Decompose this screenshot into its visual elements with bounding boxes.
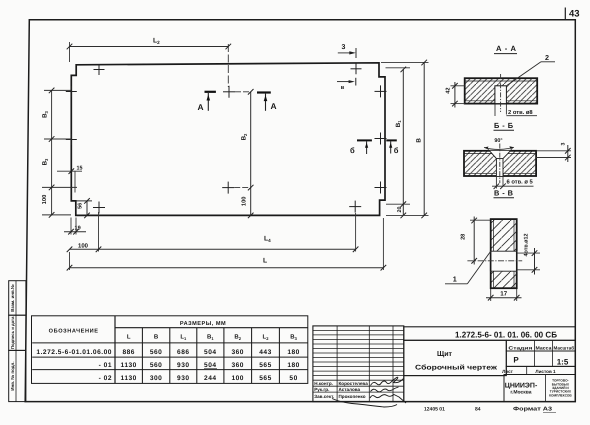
- svg-text:1130: 1130: [121, 362, 137, 369]
- svg-text:1.272.5-6- 01. 01. 06. 00 СБ: 1.272.5-6- 01. 01. 06. 00 СБ: [455, 330, 557, 340]
- svg-text:100: 100: [41, 195, 48, 205]
- svg-text:Листов 1: Листов 1: [535, 369, 556, 374]
- hole cross right edge lower: [375, 182, 387, 194]
- countersunk hole in B-B: [490, 151, 511, 176]
- svg-text:43: 43: [569, 9, 580, 20]
- panel outline: [71, 63, 385, 216]
- svg-text:Щит: Щит: [437, 349, 452, 358]
- hole cross centre upper: [223, 86, 235, 98]
- svg-text:L: L: [127, 334, 131, 341]
- svg-text:1130: 1130: [121, 375, 137, 382]
- section mark A right: [257, 93, 277, 112]
- svg-text:Масса: Масса: [536, 346, 552, 351]
- svg-text:L: L: [263, 258, 267, 265]
- svg-text:г.Москва: г.Москва: [510, 390, 531, 396]
- dim 19 bottom-left: [64, 218, 86, 235]
- svg-text:17: 17: [500, 291, 507, 298]
- svg-text:Стадия: Стадия: [508, 346, 532, 351]
- title block organisation cell: [504, 375, 575, 402]
- svg-text:Взам. инв.№: Взам. инв.№: [10, 284, 15, 312]
- svg-text:686: 686: [177, 349, 190, 356]
- svg-text:4отв.ø12: 4отв.ø12: [524, 234, 530, 257]
- hole cross left edge mid: [66, 134, 77, 145]
- left margin box: Podpis i data: [9, 315, 26, 350]
- footer format A3: [513, 407, 556, 413]
- section V-V rib: [467, 219, 522, 288]
- svg-text:930: 930: [177, 375, 190, 382]
- dim 3 countersink depth: [536, 143, 571, 162]
- hole cross left edge upper: [66, 86, 77, 97]
- title block stadia massa masshtab header: [506, 340, 575, 366]
- dimension B2 centre vertical: [234, 89, 253, 218]
- svg-text:в: в: [341, 85, 345, 91]
- dimension table: [32, 316, 308, 384]
- svg-text:930: 930: [177, 362, 190, 369]
- svg-text:Формат А3: Формат А3: [513, 407, 552, 413]
- dimension L2 top: [67, 38, 231, 88]
- svg-text:20: 20: [397, 207, 403, 213]
- hole cross right edge mid: [375, 133, 387, 145]
- svg-text:2 отв. ø8: 2 отв. ø8: [508, 109, 533, 116]
- hole cross centre lower: [222, 182, 234, 194]
- svg-text:КОМПЛЕКСОВ: КОМПЛЕКСОВ: [549, 393, 572, 397]
- section mark B left: [350, 140, 372, 155]
- hole cross top-right: [351, 63, 362, 74]
- svg-text:180: 180: [287, 349, 300, 356]
- svg-text:300: 300: [150, 375, 163, 382]
- leader item 3: [338, 44, 356, 58]
- svg-text:Коростелева: Коростелева: [339, 381, 369, 386]
- dim 28 section V-V: [460, 217, 490, 265]
- svg-text:90°: 90°: [494, 138, 502, 144]
- svg-text:100: 100: [78, 242, 89, 249]
- table header texts: [49, 321, 298, 341]
- section A-A slab: [465, 74, 538, 112]
- svg-text:РАЗМЕРЫ, ММ: РАЗМЕРЫ, ММ: [180, 321, 226, 327]
- left margin box: Inv nom podl: [9, 350, 26, 401]
- svg-text:В-В: В-В: [494, 189, 513, 198]
- svg-text:- 02: - 02: [99, 375, 112, 382]
- svg-text:50: 50: [289, 375, 297, 382]
- hole cross bottom-right: [349, 201, 361, 213]
- svg-text:Лист: Лист: [502, 369, 514, 374]
- svg-text:100: 100: [241, 196, 248, 206]
- svg-text:В: В: [154, 334, 159, 341]
- dim 100 bottom: [78, 212, 99, 252]
- svg-text:Зав.сект.: Зав.сект.: [314, 394, 334, 399]
- dimension B1 right: [386, 67, 411, 219]
- svg-text:15: 15: [77, 166, 83, 172]
- left dimension stack B3 B3 100: [42, 90, 77, 215]
- hole cross bottom-left: [93, 202, 105, 214]
- leader item 2: [507, 53, 555, 86]
- svg-text:3: 3: [561, 143, 567, 146]
- section B-B slab: [464, 144, 536, 184]
- countersink angle 90 deg: [484, 138, 514, 154]
- svg-text:Сборочный чертеж: Сборочный чертеж: [415, 364, 497, 372]
- dimension L4 bottom: [67, 213, 359, 252]
- hole band in V-V: [490, 251, 517, 271]
- detail dim 15 on left edge: [57, 166, 83, 193]
- svg-text:443: 443: [259, 349, 272, 356]
- section mark A left: [198, 92, 216, 112]
- svg-text:б: б: [394, 146, 399, 155]
- title block signature grid: [313, 326, 404, 402]
- dim 17 section V-V: [486, 289, 522, 301]
- svg-text:б: б: [350, 146, 355, 155]
- section title V-V: [494, 189, 515, 198]
- svg-text:Н.контр.: Н.контр.: [314, 381, 333, 386]
- svg-text:3: 3: [342, 44, 346, 51]
- svg-text:В: В: [416, 138, 423, 143]
- svg-text:1.272.5-6-01.01.06.00: 1.272.5-6-01.01.06.00: [36, 349, 112, 356]
- svg-text:19: 19: [75, 226, 81, 232]
- svg-text:ЦНИИЭП-: ЦНИИЭП-: [505, 382, 538, 389]
- insert key in A-A: [495, 86, 507, 104]
- centreline of A-A hole: [500, 74, 502, 112]
- svg-text:А-А: А-А: [496, 44, 517, 53]
- svg-text:Инв. № подл.: Инв. № подл.: [10, 361, 15, 390]
- signature names: [314, 381, 368, 399]
- page number 43: [565, 8, 579, 20]
- title block stage P and scale 1:5: [506, 351, 575, 366]
- svg-text:Р: Р: [513, 356, 519, 365]
- svg-text:565: 565: [259, 362, 272, 369]
- svg-text:Рук.гр.: Рук.гр.: [314, 387, 329, 392]
- svg-text:ОБОЗНАЧЕНИЕ: ОБОЗНАЧЕНИЕ: [49, 328, 99, 334]
- dimension L bottom: [67, 218, 387, 271]
- svg-text:6 отв. ø 5: 6 отв. ø 5: [507, 179, 534, 186]
- title block list row: [502, 366, 575, 374]
- svg-text:Подпись и дата: Подпись и дата: [10, 316, 15, 349]
- left margin box: Vzam inv: [9, 281, 26, 316]
- svg-text:Прокопенко: Прокопенко: [339, 394, 366, 399]
- svg-text:100: 100: [231, 375, 244, 382]
- table row 2: [99, 362, 300, 369]
- svg-text:1:5: 1:5: [557, 357, 569, 366]
- svg-text:504: 504: [204, 349, 217, 356]
- label 2 otv d8: [495, 105, 537, 117]
- svg-text:360: 360: [231, 362, 244, 369]
- svg-text:560: 560: [150, 349, 163, 356]
- dim 4 otv d12 section V-V: [518, 234, 541, 275]
- svg-text:28: 28: [460, 234, 466, 240]
- svg-text:84: 84: [475, 407, 481, 413]
- svg-text:Асталова: Асталова: [339, 387, 361, 392]
- title block name cell Shchit: [404, 340, 507, 375]
- dimension B far right: [381, 60, 429, 219]
- svg-text:56: 56: [78, 203, 84, 209]
- signature squiggles: [332, 377, 406, 407]
- svg-text:360: 360: [231, 349, 244, 356]
- svg-text:Б-Б: Б-Б: [494, 121, 514, 130]
- svg-text:560: 560: [150, 362, 163, 369]
- leader mark v top-right inside panel: [337, 78, 356, 91]
- svg-text:- 01: - 01: [99, 362, 112, 369]
- svg-text:12405 01: 12405 01: [424, 407, 445, 413]
- svg-text:886: 886: [122, 349, 135, 356]
- label 6 otv d5: [492, 177, 534, 189]
- table row 3: [99, 375, 298, 382]
- svg-text:42: 42: [446, 87, 452, 93]
- svg-text:Масштаб: Масштаб: [554, 346, 575, 351]
- hole cross right edge upper: [375, 85, 387, 97]
- svg-text:А: А: [271, 101, 277, 111]
- dim 42 section A-A: [446, 82, 465, 108]
- svg-text:1: 1: [453, 275, 457, 284]
- dim 56 bottom-left step: [76, 198, 92, 218]
- svg-text:244: 244: [204, 375, 217, 382]
- table row 1: [36, 349, 299, 356]
- hole cross top-left: [94, 64, 105, 75]
- svg-text:2: 2: [545, 53, 549, 62]
- svg-text:504: 504: [204, 362, 217, 369]
- centreline of V-V hole: [467, 260, 522, 262]
- leader item 1: [445, 251, 491, 284]
- section title A-A: [494, 44, 517, 54]
- title block document number cell: [404, 327, 576, 341]
- empty lower-left stamp cell: [404, 376, 504, 402]
- svg-text:565: 565: [259, 375, 272, 382]
- svg-text:А: А: [198, 102, 204, 112]
- section title B-B (guide): [494, 121, 515, 130]
- svg-text:180: 180: [287, 362, 300, 369]
- section mark B right: [386, 140, 398, 155]
